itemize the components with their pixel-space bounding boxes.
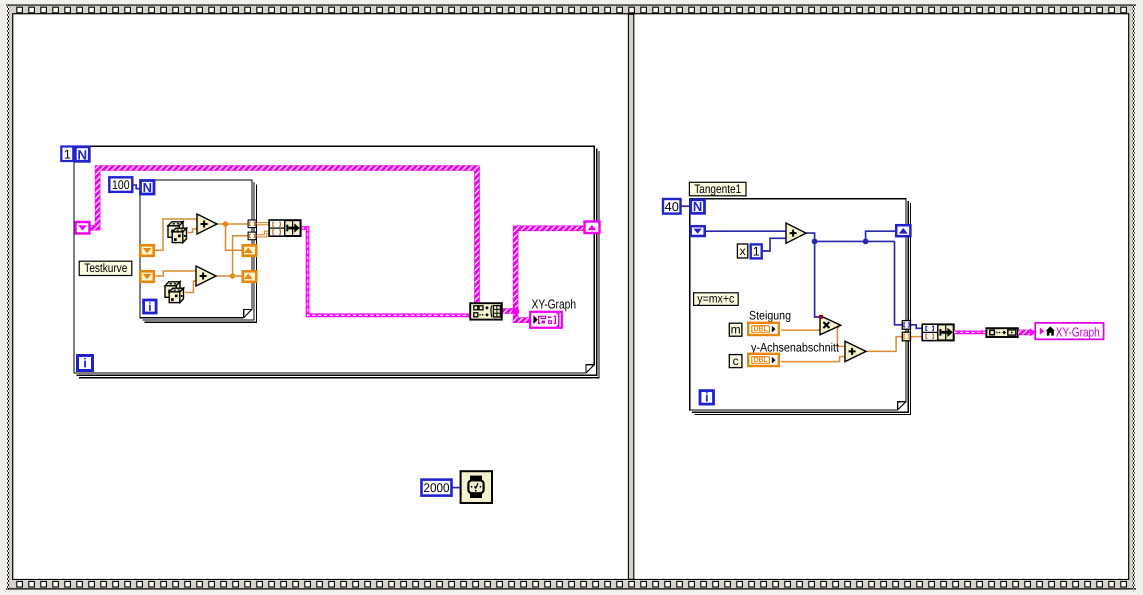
blue wire: shift register to add	[705, 230, 786, 232]
frame right checkered edge	[1133, 5, 1135, 589]
orange shift register right 1 (up arrow)	[243, 245, 256, 256]
svg-text:Tangente1: Tangente1	[694, 182, 741, 196]
orange wire: orange tunnel to bundle	[911, 336, 922, 338]
orange wire: DBL y-Achsenabschnitt to add 2	[781, 357, 845, 362]
constant 1 (right frame)	[751, 244, 762, 258]
label x	[737, 244, 747, 258]
add function 2 (right frame bottom)	[845, 341, 866, 361]
iteration terminal inner loop	[144, 300, 157, 313]
tunnel 2 (auto-indexed)	[248, 232, 256, 240]
svg-text:N: N	[77, 147, 87, 162]
hatched wire: junction down to XY-Graph terminal	[516, 311, 530, 320]
hatched wire: build array to XY-Graph local variable	[1018, 330, 1031, 336]
frame outer top line	[6, 4, 1136, 6]
frame left checkered edge	[7, 5, 9, 589]
iteration terminal right loop	[700, 391, 714, 405]
orange shift register right 2 (up arrow)	[243, 271, 256, 282]
orange wire: shift register 1 to add 1	[155, 219, 198, 250]
left gray column	[9, 6, 13, 589]
bundle node (left frame)	[269, 220, 301, 236]
film band bottom (gray)	[8, 581, 1133, 589]
constant 100 (inner loop count)	[109, 177, 132, 192]
bundle node (right frame)	[922, 324, 954, 340]
for loop (right frame) main border with page curl	[690, 199, 906, 410]
inner for loop page curl	[244, 310, 251, 317]
label y=mx+c	[694, 293, 739, 306]
svg-text:1: 1	[64, 147, 71, 161]
label Tangente1	[689, 182, 746, 196]
N terminal right loop	[691, 200, 705, 214]
film band top (gray)	[8, 6, 1133, 14]
svg-text:y-Achsenabschnitt: y-Achsenabschnitt	[751, 341, 840, 355]
orange wire: add 1 output to tunnel 1 and right shift register 1	[217, 224, 248, 250]
svg-text:1: 1	[753, 244, 760, 258]
tunnel 1 (auto-indexed)	[248, 220, 256, 228]
label m	[729, 323, 742, 336]
build array node (right frame)	[986, 328, 1017, 337]
wire 40 to N	[681, 205, 691, 207]
blue wire: blue tunnel to bundle	[911, 325, 922, 329]
wire 2000 to wait	[452, 487, 461, 489]
constant 1 (outer loop count)	[61, 147, 73, 162]
label Testkurve	[79, 261, 132, 275]
svg-text:N: N	[143, 180, 152, 195]
cluster wire (dashed magenta): bundle to build array	[301, 228, 470, 315]
dice 1 (random number)	[168, 222, 187, 243]
blue wire: constant 1 to add	[762, 238, 786, 251]
blue tunnel (auto-indexed)	[902, 321, 910, 330]
svg-text:i: i	[148, 300, 151, 314]
orange wire: dice 1 to add 1	[188, 229, 197, 233]
junction dot add 2	[230, 273, 235, 278]
svg-text:XY-Graph: XY-Graph	[1056, 324, 1100, 339]
N terminal inner loop	[141, 181, 155, 195]
label c	[729, 355, 742, 368]
magenta shift register right (up arrow)	[585, 222, 600, 234]
junction dot add 1	[223, 221, 228, 226]
frame outer bottom line	[6, 588, 1136, 590]
orange shift register left 1 (down arrow)	[140, 245, 154, 256]
blue shift register left (down arrow)	[691, 226, 705, 236]
svg-text:i: i	[83, 356, 87, 371]
inner for loop main border with page curl	[140, 180, 252, 318]
blue junction dot 2	[863, 239, 869, 245]
orange array wire: tunnel 1 to bundle	[256, 222, 269, 225]
inner for loop shadow borders	[142, 182, 254, 320]
iteration terminal outer loop	[78, 356, 93, 371]
blue shift register right (up arrow)	[896, 225, 910, 236]
outer for loop (left frame) shadow borders	[76, 149, 596, 376]
add function 2	[196, 266, 216, 286]
svg-text:c: c	[733, 354, 739, 368]
for loop (right frame) shadow borders	[692, 201, 908, 412]
svg-text:y=mx+c: y=mx+c	[697, 292, 734, 306]
blue wire: add output bus with branches	[806, 231, 902, 325]
coercion dot (red) at multiply input	[819, 315, 823, 319]
orange tunnel (auto-indexed)	[902, 332, 910, 341]
magenta junction	[512, 307, 519, 314]
blue junction dot 1	[812, 239, 818, 245]
wire 100 to N	[133, 185, 140, 189]
hatched wire: left shift register up over loop top to build array	[90, 168, 478, 303]
orange wire: add 2 output to orange tunnel	[866, 337, 902, 352]
DBL control y-Achsenabschnitt	[748, 354, 779, 366]
N terminal outer loop	[75, 147, 89, 162]
svg-text:2000: 2000	[424, 481, 450, 495]
add function 1	[197, 214, 217, 234]
XY-Graph local variable	[1035, 323, 1103, 339]
for loop (right frame) page curl	[898, 402, 905, 409]
multiply function	[820, 316, 841, 335]
dice 2 (random number)	[165, 282, 184, 303]
svg-text:Steigung: Steigung	[749, 309, 791, 323]
svg-text:Testkurve: Testkurve	[84, 261, 127, 275]
frame divider between the two sequence frames	[628, 14, 633, 579]
orange wire: multiply output to add 2	[837, 327, 845, 347]
orange wire: DBL Steigung to multiply	[781, 329, 820, 331]
orange wire: dice 2 to add 2	[185, 281, 196, 293]
build array node (left frame)	[470, 303, 502, 319]
right gray column	[1129, 6, 1133, 589]
outer for loop (left frame) main border with page curl	[74, 146, 594, 373]
svg-text:N: N	[693, 199, 702, 214]
constant 40	[663, 199, 681, 214]
wait (ms) function	[461, 471, 492, 503]
svg-text:100: 100	[112, 178, 130, 192]
DBL control Steigung	[748, 323, 779, 335]
add function (right frame top)	[786, 223, 806, 243]
svg-text:XY-Graph: XY-Graph	[532, 297, 577, 312]
hatched wire: build array output up to right shift register	[502, 228, 584, 311]
orange array wire: tunnel 2 to bundle	[256, 232, 269, 236]
orange wire: shift register 2 to add 2	[155, 271, 197, 276]
cluster wire (dashed magenta): bundle to build array (right frame)	[954, 330, 986, 334]
svg-text:m: m	[731, 323, 741, 337]
constant 2000	[422, 480, 452, 496]
svg-text:40: 40	[665, 199, 679, 214]
outer for loop page curl diagonal	[587, 365, 594, 372]
svg-text:x: x	[740, 244, 746, 258]
svg-text:i: i	[705, 390, 709, 405]
magenta shift register left (down arrow)	[76, 222, 90, 234]
orange wire: add 2 output to right shift register 2 and tunnel 2	[216, 236, 248, 276]
orange shift register left 2 (down arrow)	[140, 271, 154, 282]
